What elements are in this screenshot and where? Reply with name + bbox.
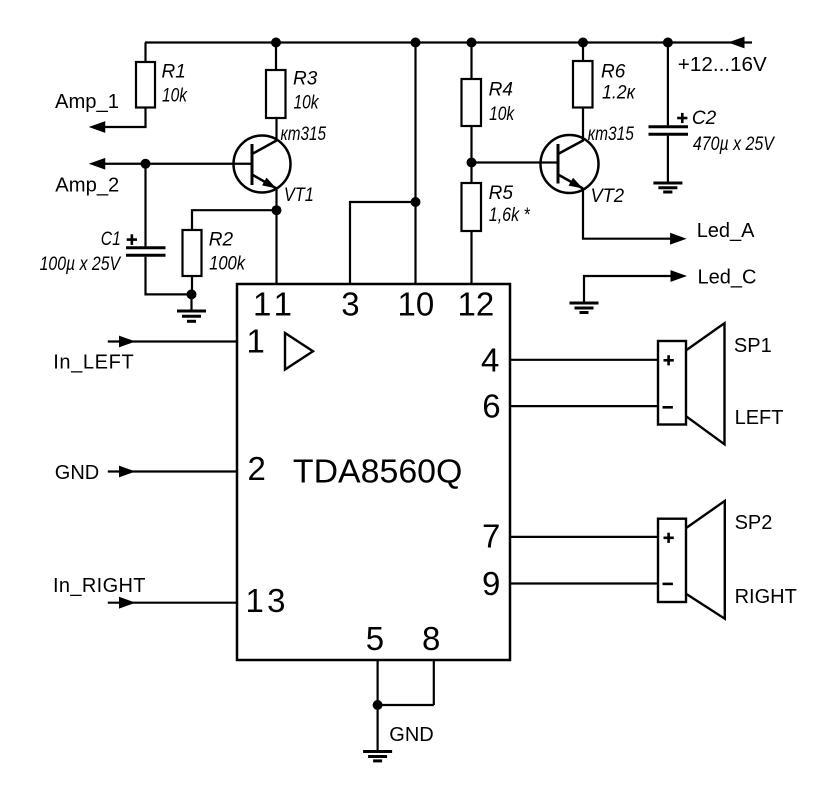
svg-text:Led_A: Led_A	[697, 220, 755, 242]
svg-text:100k: 100k	[209, 253, 246, 274]
ground below R2	[177, 310, 206, 313]
svg-text:GND: GND	[389, 724, 433, 746]
svg-text:1.2к: 1.2к	[602, 83, 636, 104]
wire: R4 bottom to divider node	[470, 126, 472, 163]
svg-text:2: 2	[248, 450, 266, 487]
svg-text:кm315: кm315	[588, 124, 634, 145]
svg-text:VT2: VT2	[591, 186, 625, 207]
resistor R3	[266, 70, 286, 118]
wire: R6 bottom to VT2 collector	[582, 108, 584, 142]
wire: pin 9 to SP2 minus	[510, 582, 658, 584]
svg-text:10k: 10k	[162, 85, 188, 106]
ground below Led_C	[570, 302, 599, 305]
wire: pin 5 down	[377, 660, 379, 705]
arrow GND (right)	[119, 466, 136, 478]
wire: rail to C2 top	[667, 43, 669, 126]
svg-text:10: 10	[398, 286, 435, 323]
svg-text:6: 6	[482, 388, 500, 425]
node: rail junction at R4	[467, 38, 477, 48]
resistor R2	[183, 230, 202, 276]
svg-text:3: 3	[341, 286, 359, 323]
arrow Led_A (right)	[670, 233, 687, 245]
node: junction pin3/pin10 wire	[411, 197, 421, 207]
svg-text:RIGHT: RIGHT	[735, 586, 797, 608]
capacitor C1	[126, 246, 166, 249]
svg-text:LEFT: LEFT	[735, 407, 784, 429]
node: rail junction at pin10 wire	[411, 38, 421, 48]
wire: pin 8 down	[433, 660, 435, 705]
wire: R5 top to divider node	[470, 163, 472, 184]
wire: pin 6 to SP1 minus	[510, 405, 658, 407]
wire: junction to ground	[377, 705, 379, 750]
node: junction pins 5/8	[373, 700, 383, 710]
wire: junction down to C1 top	[144, 164, 146, 247]
svg-text:11: 11	[253, 286, 292, 323]
svg-text:R4: R4	[489, 80, 513, 101]
resistor R4	[462, 79, 482, 126]
ground below C2	[653, 182, 682, 185]
wire: pin 4 to SP1 plus	[510, 359, 658, 361]
label C1 plus	[127, 238, 137, 241]
svg-text:TDA8560Q: TDA8560Q	[293, 453, 463, 490]
node: junction VT1 emitter / R2	[272, 205, 282, 215]
wire: VT1 emitter down to pin 11	[275, 189, 277, 285]
svg-text:GND: GND	[55, 462, 99, 484]
svg-text:R2: R2	[209, 229, 234, 250]
svg-text:R1: R1	[162, 61, 186, 82]
svg-text:C1: C1	[101, 229, 121, 250]
ground GND bottom	[363, 750, 392, 753]
arrow Amp_2 (left)	[89, 158, 106, 170]
svg-text:470µ x 25V: 470µ x 25V	[693, 134, 776, 155]
wire: C1 bottom to ground junction	[146, 257, 192, 295]
node: junction C1/R2/ground	[187, 289, 197, 299]
op-amp triangle symbol	[285, 333, 313, 370]
svg-text:R3: R3	[293, 69, 318, 90]
wire: C2 bottom to ground	[667, 136, 669, 182]
svg-text:кm315: кm315	[281, 124, 327, 145]
svg-text:12: 12	[458, 286, 495, 323]
wire: rail to R4 top	[470, 43, 472, 80]
transistor VT2	[541, 135, 599, 193]
arrow In_RIGHT (right)	[119, 597, 136, 609]
wire: GND to pin 2	[108, 470, 237, 472]
svg-text:7: 7	[482, 518, 500, 555]
wire: In_LEFT to pin 1	[108, 340, 237, 342]
wire: pin8 across to pin5	[378, 704, 434, 706]
svg-text:R6: R6	[601, 62, 626, 83]
svg-text:13: 13	[246, 582, 286, 619]
svg-text:1,6k *: 1,6k *	[489, 205, 531, 226]
svg-text:R5: R5	[489, 183, 514, 204]
speaker SP2	[658, 519, 686, 602]
wire: R2 top to VT1 emitter node	[192, 210, 277, 230]
svg-text:9: 9	[482, 565, 500, 602]
wire: R1 bottom to Amp_1 corner	[105, 108, 146, 128]
svg-text:100µ x 25V: 100µ x 25V	[40, 254, 122, 275]
svg-text:Led_C: Led_C	[698, 267, 757, 289]
svg-text:10k: 10k	[294, 93, 320, 114]
transistor VT1	[234, 136, 291, 193]
svg-text:+12...16V: +12...16V	[678, 54, 768, 76]
svg-text:Amp_2: Amp_2	[55, 175, 119, 197]
resistor R5	[462, 183, 482, 231]
arrow: +12...16V supply entry	[728, 37, 745, 49]
wire: rail to R3 top	[275, 43, 277, 71]
wire: divider node to VT2 base	[472, 161, 559, 163]
wire: rail down to pin 10	[414, 43, 416, 285]
wire: Amp_2 line to VT1 base	[105, 163, 252, 165]
resistor R1	[136, 62, 155, 108]
wire: R3 bottom to VT1 collector	[275, 118, 277, 142]
svg-text:SP2: SP2	[735, 512, 773, 534]
node: rail junction at R6	[578, 38, 588, 48]
wire: rail to R6 top	[582, 43, 584, 62]
svg-text:Amp_1: Amp_1	[55, 91, 119, 113]
wire: pin 3 up and to pin10 wire	[350, 202, 416, 284]
svg-text:8: 8	[422, 620, 440, 657]
resistor R6	[573, 61, 593, 108]
capacitor C2	[649, 125, 689, 128]
arrow Amp_1 (left)	[89, 121, 106, 133]
wire: rail to R1 top	[144, 43, 146, 63]
speaker SP1	[658, 341, 686, 425]
svg-text:In_RIGHT: In_RIGHT	[53, 575, 146, 597]
svg-text:C2: C2	[692, 108, 717, 129]
node: rail junction at R3	[271, 38, 281, 48]
svg-text:4: 4	[481, 341, 499, 378]
node: junction R4/R5/VT2 base	[467, 158, 477, 168]
wire: R5 bottom to pin 12	[470, 231, 472, 284]
wire: +12V power rail	[145, 41, 752, 43]
svg-text:5: 5	[366, 620, 384, 657]
wire: junction to ground	[190, 294, 192, 310]
label C2 plus	[677, 117, 687, 120]
wire: Led_C to ground	[584, 276, 671, 302]
arrow Led_C (right)	[671, 270, 688, 282]
svg-text:1: 1	[247, 323, 265, 360]
node: junction Amp_2 / C1	[141, 159, 151, 169]
wire: pin 7 to SP2 plus	[510, 536, 658, 538]
wire: In_RIGHT to pin 13	[108, 602, 237, 604]
IC U1 TDA8560Q box	[237, 284, 510, 660]
node: rail junction at C2	[663, 38, 673, 48]
svg-text:SP1: SP1	[734, 335, 772, 357]
wire: VT2 emitter to Led_A	[583, 189, 671, 239]
arrow In_LEFT (right)	[119, 336, 136, 348]
svg-text:10k: 10k	[489, 104, 515, 125]
svg-text:In_LEFT: In_LEFT	[53, 351, 134, 373]
wire: R2 bottom to junction	[191, 276, 193, 294]
svg-text:VT1: VT1	[284, 185, 314, 206]
